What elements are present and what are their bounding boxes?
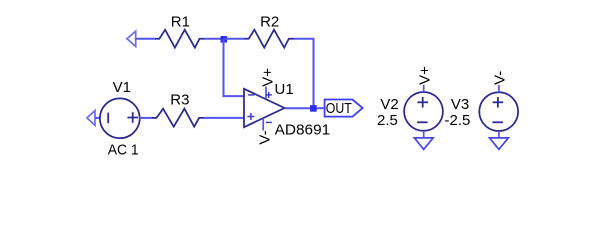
inverting input label - [248, 94, 255, 96]
svg-text:OUT: OUT [326, 100, 352, 117]
ground (V2) [414, 138, 433, 150]
port flag OUT [325, 100, 363, 117]
ground (V3) [490, 138, 509, 150]
voltage source V3 [479, 92, 518, 131]
resistor R2 [245, 30, 295, 48]
svg-text:V-: V- [257, 130, 274, 144]
port flag (V1 left) [87, 111, 95, 126]
wire (V2 ground stub) [423, 131, 425, 138]
non-inverting input label + [247, 116, 254, 118]
wire [224, 38, 245, 40]
svg-text:U1: U1 [275, 81, 294, 98]
svg-text:V3: V3 [451, 96, 469, 113]
supply pin stub V+ [265, 87, 267, 99]
supply pin label + [266, 94, 272, 96]
svg-text:AD8691: AD8691 [275, 122, 331, 139]
wire (V2 top stub) [423, 85, 425, 92]
wire (feedback from node A down to inverting input) [224, 39, 245, 96]
svg-text:R2: R2 [260, 13, 279, 30]
svg-text:-2.5: -2.5 [445, 112, 471, 129]
svg-text:V2: V2 [380, 96, 398, 113]
junction node A [221, 36, 228, 43]
svg-text:V+: V+ [260, 68, 277, 87]
wire [95, 117, 101, 119]
op-amp U1 [244, 87, 285, 131]
wire (V3 top stub) [498, 85, 500, 92]
svg-text:V-: V- [492, 71, 509, 85]
svg-text:2.5: 2.5 [377, 112, 398, 129]
svg-text:AC 1: AC 1 [108, 142, 139, 159]
svg-text:V+: V+ [417, 66, 434, 85]
supply pin label - [266, 121, 272, 123]
port flag (top-left input) [127, 31, 136, 46]
voltage source V2 [404, 92, 443, 131]
resistor R1 [155, 30, 205, 48]
svg-text:R1: R1 [171, 13, 190, 30]
resistor R3 [152, 109, 205, 127]
wire [205, 117, 244, 119]
wire [139, 117, 152, 119]
wire (output) [285, 107, 325, 109]
wire (V3 ground stub) [498, 131, 500, 138]
supply pin stub V- [262, 118, 264, 130]
svg-text:R3: R3 [170, 92, 189, 109]
junction node OUT [310, 105, 317, 112]
svg-text:V1: V1 [113, 79, 131, 96]
voltage source V1 [100, 98, 140, 138]
wire [205, 38, 225, 40]
wire [294, 39, 314, 109]
wire [136, 38, 156, 40]
